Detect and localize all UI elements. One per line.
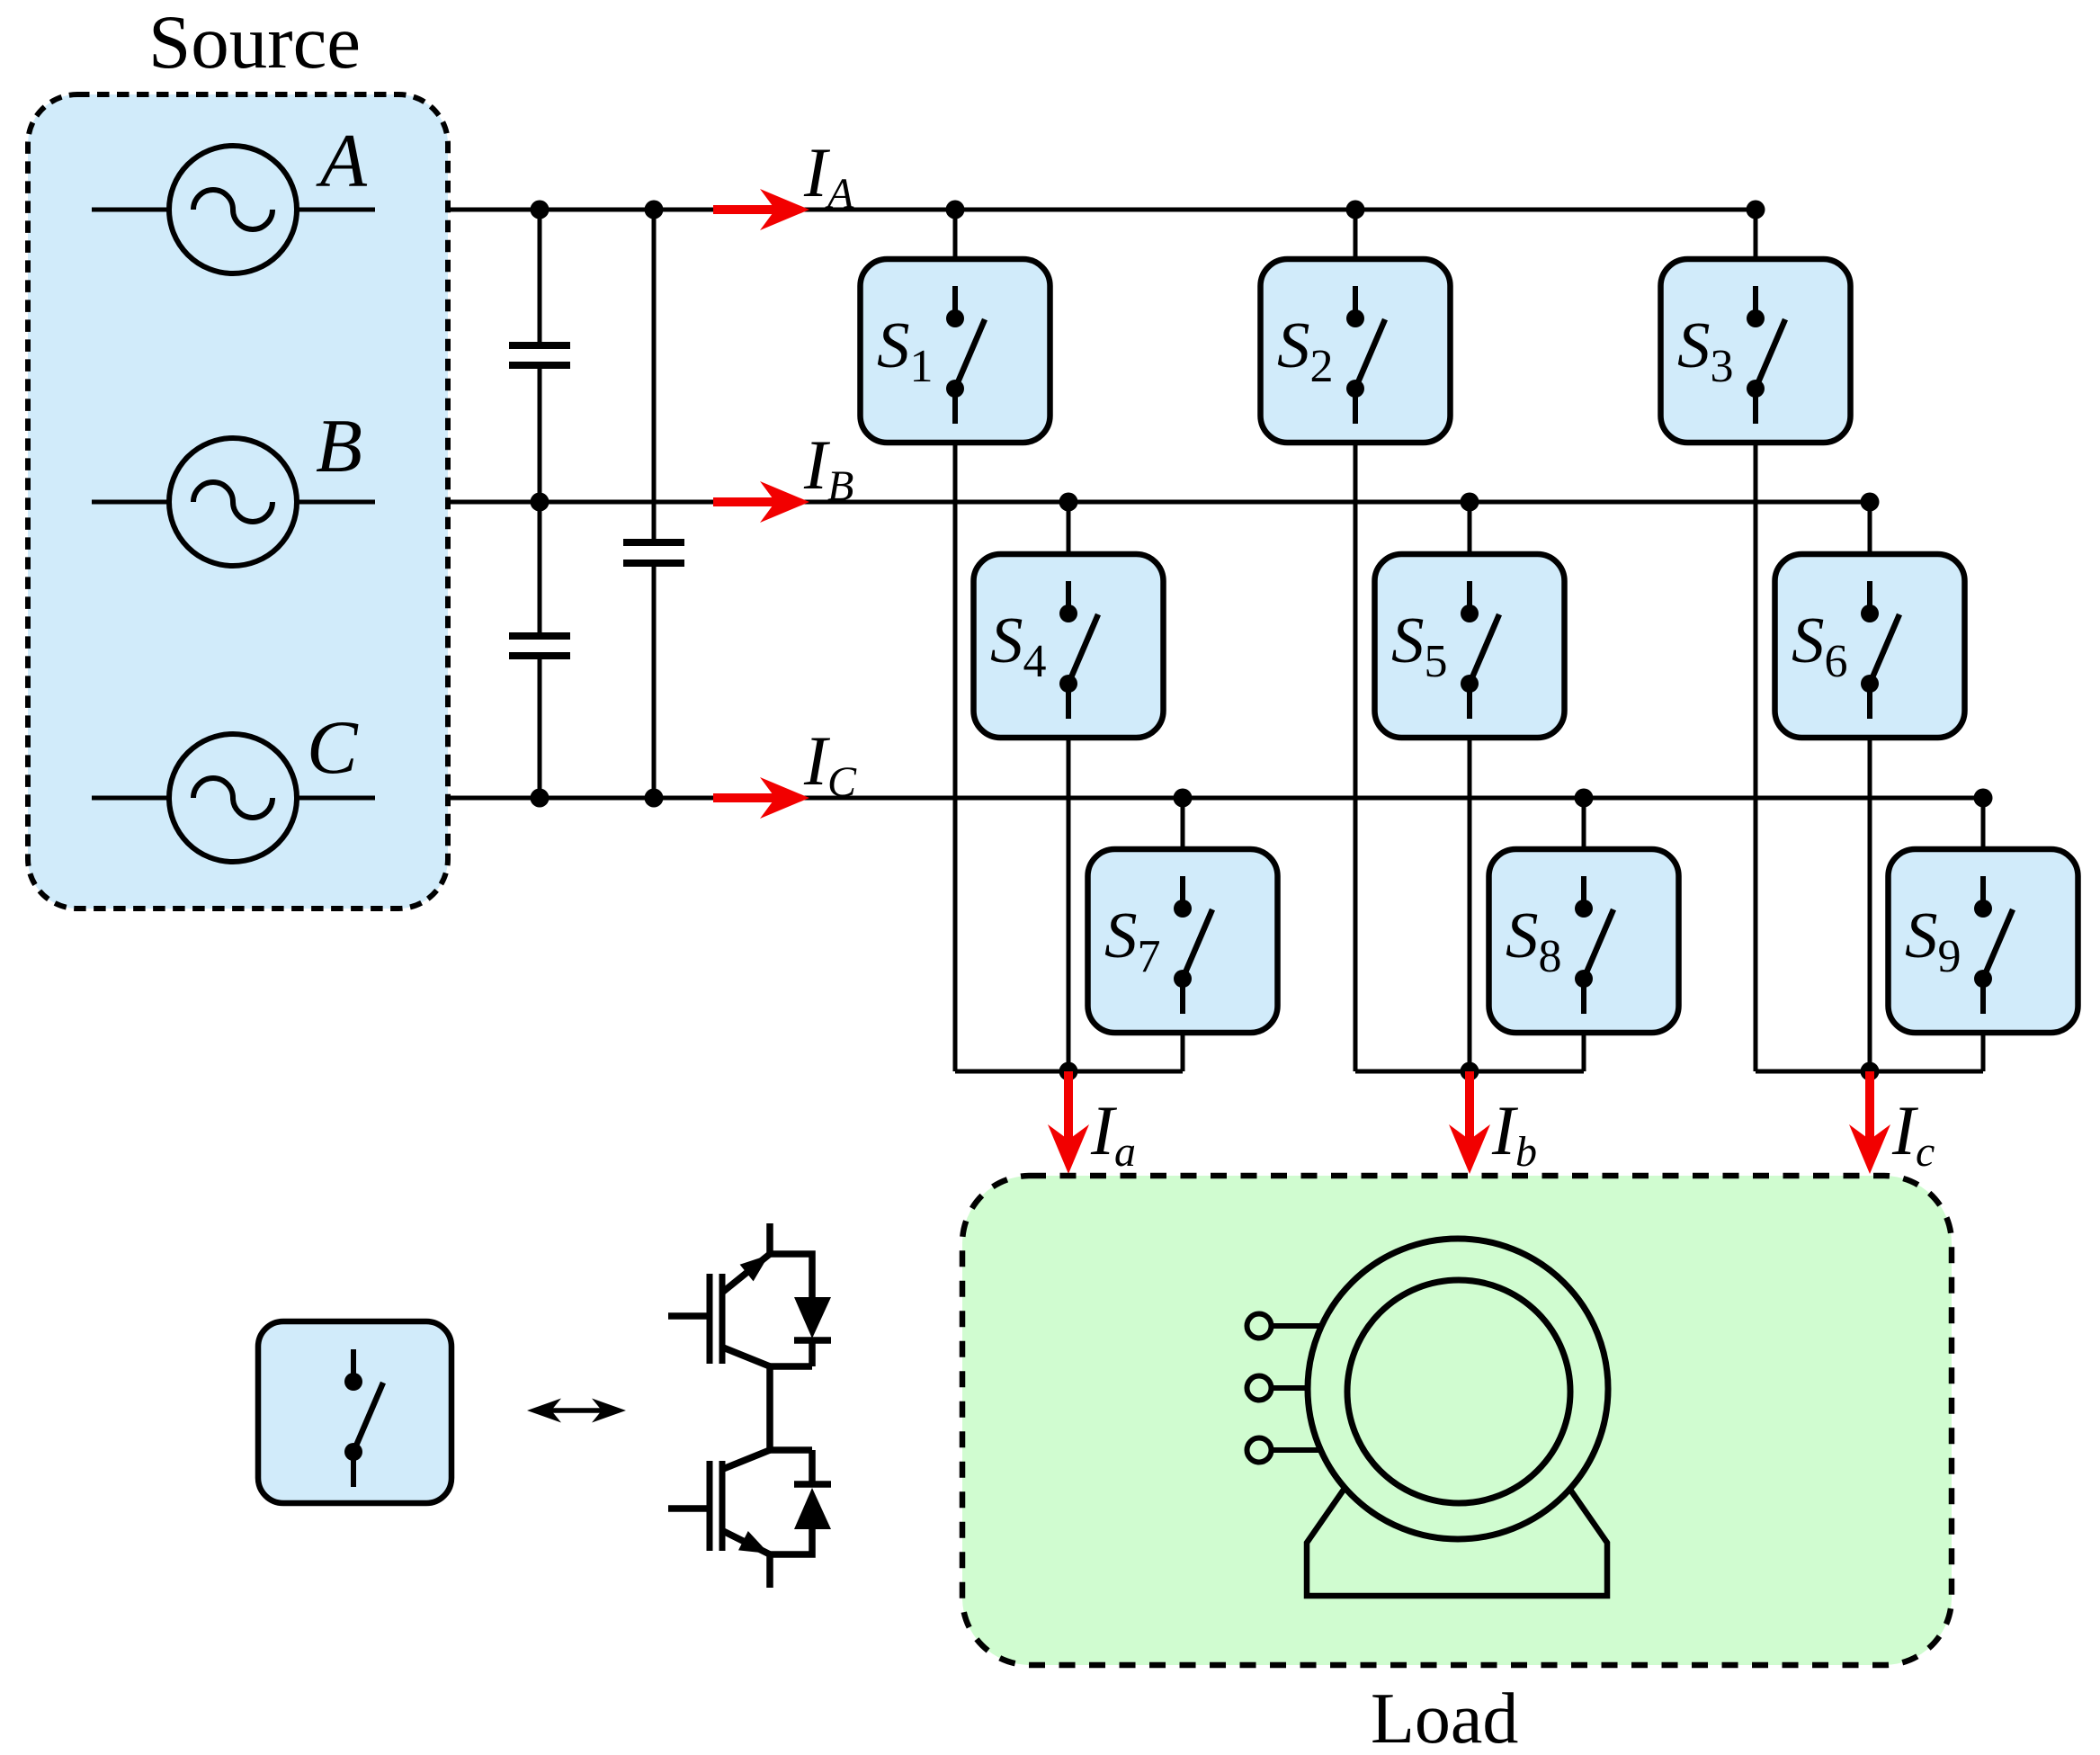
junction dots on filter columns [531,201,664,808]
arrow I_C [713,777,809,819]
capacitor C2 (B-C) [509,636,570,656]
svg-text:Source: Source [148,0,361,85]
arrow I_A [713,189,809,230]
switch S4 (bidirectional switch cell) [974,554,1164,738]
switch S8 (bidirectional switch cell) [1489,849,1679,1033]
source dashed box [28,94,448,909]
diode D2 (antiparallel to Q2) [770,1450,831,1554]
arrow I_a [1048,1071,1089,1174]
wire output bus b [1355,1062,1584,1081]
switch S7 (bidirectional switch cell) [1088,849,1278,1033]
wire stubs row 2 with node dots [1059,493,1880,555]
wire output bus c [1756,1062,1983,1081]
arrow I_b [1449,1071,1490,1174]
load dashed box [962,1176,1952,1665]
AC source B [92,404,375,566]
motor terminals [1247,1314,1321,1463]
switch S5 (bidirectional switch cell) [1375,554,1565,738]
wire phase C line [447,796,1983,801]
svg-text:A: A [316,119,368,203]
switch S3 (bidirectional switch cell) [1661,259,1851,443]
capacitor C1 (A-B) [509,345,570,365]
motor M (load machine) [1307,1239,1608,1596]
wire outputs row 1 to bus [955,443,1756,1071]
switch S1 (bidirectional switch cell) [861,259,1050,443]
AC source C [92,705,375,862]
svg-text:B: B [316,404,362,488]
legend switch box [258,1321,451,1503]
wire output bus a [955,1062,1183,1081]
legend equivalence double arrow [527,1399,626,1423]
arrow I_c [1849,1071,1890,1174]
wire outputs row 2 to bus [1068,738,1870,1071]
diode D1 (antiparallel to Q1) [770,1297,831,1366]
wire phase A line [447,208,1756,212]
wire stubs row 3 with node dots [1174,789,1993,850]
transistor Q1 (upper IGBT) [668,1223,812,1366]
wire outputs row 3 to bus [1183,1033,1983,1071]
wire filter column 1 [538,210,542,798]
arrow I_B [713,481,809,523]
wire stubs row 1 with node dots [946,201,1765,260]
capacitor C3 (A-C) [623,542,684,563]
svg-text:Load: Load [1371,1679,1518,1755]
svg-text:C: C [307,705,359,790]
switch S2 (bidirectional switch cell) [1261,259,1451,443]
wire IGBT common emitter link [766,1366,773,1450]
switch S6 (bidirectional switch cell) [1775,554,1965,738]
AC source A [92,119,375,273]
wire phase B line [447,500,1870,505]
switch S9 (bidirectional switch cell) [1889,849,2078,1033]
wire filter column 2 [652,210,657,798]
transistor Q2 (lower IGBT) [668,1450,770,1588]
